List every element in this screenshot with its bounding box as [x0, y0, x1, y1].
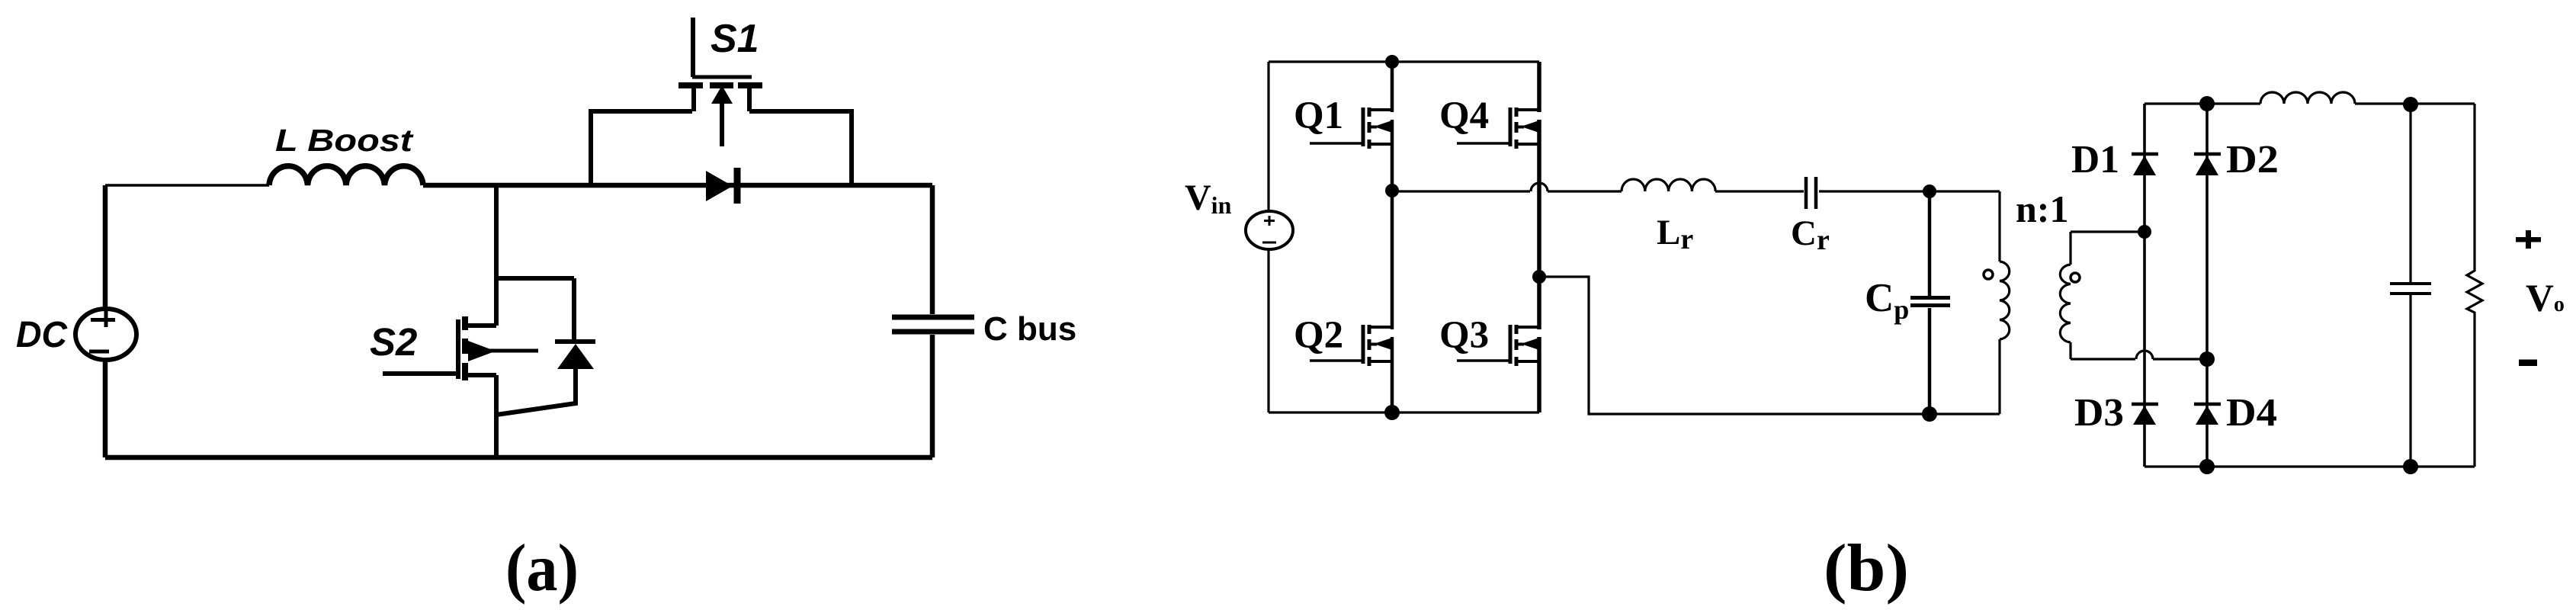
svg-text:S2: S2 — [370, 320, 417, 364]
svg-text:D4: D4 — [2226, 391, 2277, 435]
svg-text:DC: DC — [16, 315, 68, 355]
svg-text:Q3: Q3 — [1439, 314, 1489, 357]
svg-text:D1: D1 — [2071, 138, 2119, 181]
svg-text:Q2: Q2 — [1294, 314, 1343, 357]
svg-text:Q4: Q4 — [1439, 95, 1489, 137]
svg-text:Q1: Q1 — [1294, 95, 1343, 137]
svg-text:(b): (b) — [1824, 531, 1909, 605]
svg-text:L Boost: L Boost — [275, 123, 415, 158]
svg-text:D2: D2 — [2226, 138, 2279, 181]
svg-text:C bus: C bus — [983, 310, 1076, 348]
svg-text:n:1: n:1 — [2016, 188, 2068, 230]
svg-text:D3: D3 — [2074, 391, 2124, 435]
svg-text:S1: S1 — [711, 17, 759, 61]
svg-text:(a): (a) — [505, 531, 579, 605]
